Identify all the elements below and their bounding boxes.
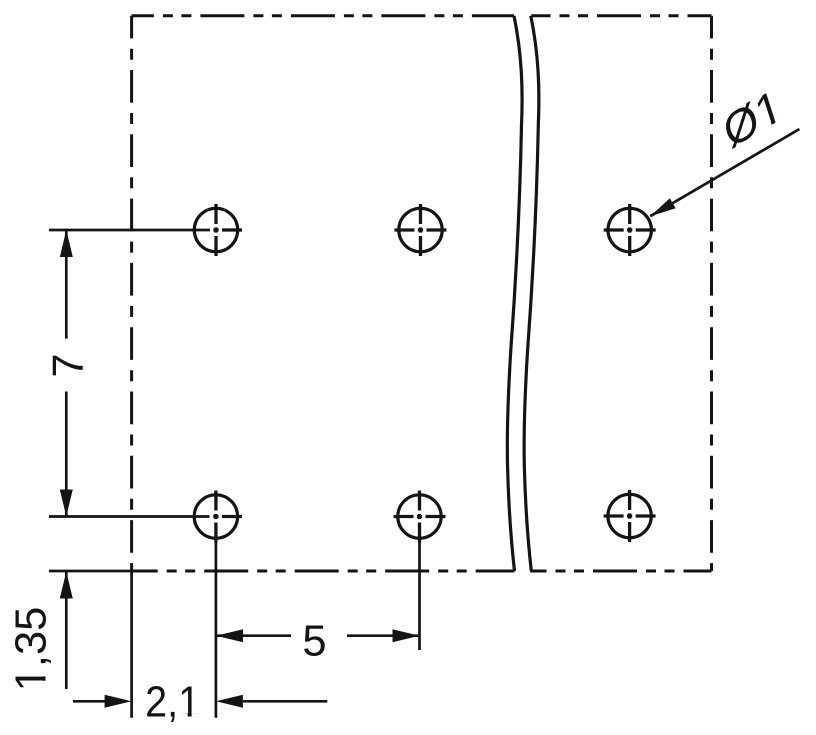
svg-text:5: 5 <box>302 618 326 666</box>
svg-text:7: 7 <box>45 353 93 377</box>
svg-text:1,35: 1,35 <box>8 607 56 692</box>
svg-text:2,1: 2,1 <box>145 679 200 727</box>
